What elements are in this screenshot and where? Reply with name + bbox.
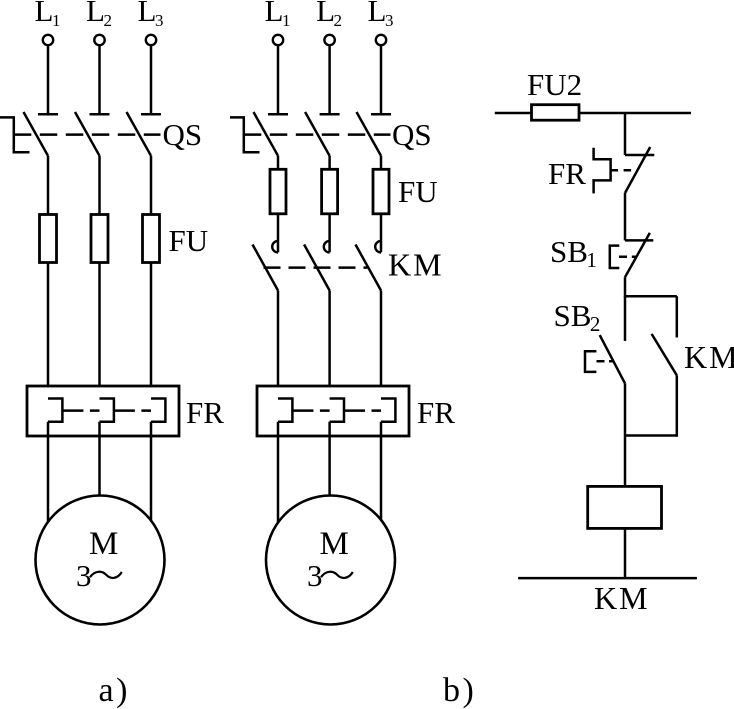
svg-text:FR: FR <box>548 156 586 191</box>
pushbutton SB1 actuator <box>610 246 620 268</box>
wire <box>624 113 627 155</box>
wire <box>380 214 383 253</box>
pushbutton SB1 link (dashed) <box>619 256 637 259</box>
wire <box>47 422 50 523</box>
switch QS pole 1 fixed contact <box>268 113 288 116</box>
svg-text:SB2: SB2 <box>554 298 601 336</box>
fuse FU element 2 <box>91 215 108 263</box>
wire <box>380 291 383 399</box>
terminal L2' <box>324 35 334 45</box>
switch QS linkage (dashed) <box>14 133 161 136</box>
thermal relay FR box <box>27 386 179 436</box>
thermal relay FR link (dashed) <box>62 409 99 412</box>
svg-text:L1: L1 <box>265 0 291 30</box>
pushbutton SB1 blade <box>625 233 650 277</box>
switch QS pole 3 fixed contact <box>371 113 391 116</box>
fuse FU' element 1 <box>270 169 286 214</box>
wire N (bottom supply) <box>518 577 697 580</box>
wire <box>150 422 153 522</box>
wire <box>380 46 383 114</box>
contactor KM main contact 3 arc <box>375 241 381 253</box>
svg-text:M: M <box>320 526 349 562</box>
label ~ (AC) <box>321 572 353 578</box>
motor M1 (3-phase) <box>36 496 165 625</box>
contact FR thermal actuator <box>594 148 611 194</box>
thermal relay FR link (dashed) <box>114 409 151 412</box>
wire <box>277 422 280 523</box>
thermal relay FR heater 1 <box>48 399 62 422</box>
wire <box>328 156 331 170</box>
switch QS pole 2 fixed contact <box>320 113 340 116</box>
svg-text:KM: KM <box>388 247 444 283</box>
contact FR link (dashed) <box>611 169 638 172</box>
wire <box>277 46 280 114</box>
thermal relay FR' box <box>257 386 409 436</box>
terminal L1 <box>43 35 53 45</box>
wire <box>380 422 383 522</box>
switch QS pole 3 blade <box>127 112 152 156</box>
switch QS pole 2 blade <box>305 112 330 156</box>
wire <box>328 291 331 399</box>
contactor KM main contact 2 blade <box>304 245 330 291</box>
wire <box>98 46 101 114</box>
switch QS handle bracket <box>0 117 30 152</box>
svg-text:SB1: SB1 <box>550 234 597 272</box>
terminal L2 <box>94 35 104 45</box>
pushbutton SB1 fixed terminal <box>625 239 653 242</box>
fuse FU' element 3 <box>373 169 389 214</box>
switch QS pole 1 blade <box>254 112 279 156</box>
contactor KM main contact 2 arc <box>324 241 330 253</box>
fuse FU' element 2 <box>322 169 338 214</box>
terminal L3' <box>376 35 386 45</box>
wire (branch junction bottom) <box>625 434 677 437</box>
label ~ (AC) <box>90 572 122 578</box>
switch QS linkage (dashed) <box>244 133 391 136</box>
terminal L1' <box>273 35 283 45</box>
wire <box>624 277 627 297</box>
svg-text:L2: L2 <box>86 0 112 30</box>
switch QS pole 1 blade <box>24 112 49 156</box>
svg-text:L1: L1 <box>35 0 61 30</box>
pushbutton SB2 actuator <box>585 351 596 372</box>
wire <box>380 156 383 170</box>
wire <box>676 296 679 337</box>
wire <box>47 263 50 399</box>
thermal relay FR' heater 2 <box>330 399 344 422</box>
coil KM <box>588 486 662 528</box>
wire <box>624 193 627 240</box>
wire <box>277 156 280 170</box>
svg-text:b): b) <box>443 672 476 709</box>
pushbutton SB2 link (dashed) <box>597 360 614 363</box>
wire <box>98 422 101 497</box>
wire <box>624 383 627 486</box>
svg-text:3: 3 <box>307 558 323 593</box>
terminal L3 <box>146 35 156 45</box>
wire L (top supply) <box>495 112 691 115</box>
contactor KM main contact 3 blade <box>356 245 382 291</box>
wire <box>328 46 331 114</box>
wire <box>277 214 280 253</box>
thermal relay FR heater 2 <box>100 399 114 422</box>
fuse FU element 3 <box>143 215 160 263</box>
thermal relay FR' link (dashed) <box>292 409 329 412</box>
switch QS pole 3 fixed contact <box>141 113 161 116</box>
contact FR fixed terminal <box>625 154 654 157</box>
wire <box>328 214 331 253</box>
wire <box>277 291 280 399</box>
svg-text:FR: FR <box>186 395 224 430</box>
svg-text:FU: FU <box>169 223 209 258</box>
thermal relay FR' link (dashed) <box>344 409 381 412</box>
contact FR blade <box>625 147 650 193</box>
svg-text:M: M <box>89 526 118 562</box>
contactor KM main contact 1 blade <box>253 245 279 291</box>
wire <box>98 263 101 399</box>
switch QS pole 2 fixed contact <box>90 113 110 116</box>
wire <box>47 156 50 215</box>
fuse FU2 <box>532 105 580 121</box>
switch QS pole 2 blade <box>75 112 100 156</box>
svg-text:KM: KM <box>594 580 650 616</box>
thermal relay FR' heater 1 <box>278 399 292 422</box>
svg-text:FR: FR <box>417 395 455 430</box>
wire <box>47 46 50 114</box>
svg-text:L2: L2 <box>316 0 342 30</box>
svg-text:L3: L3 <box>138 0 164 30</box>
contactor KM linkage (dashed) <box>264 266 368 269</box>
wire <box>328 422 331 497</box>
wire <box>150 263 153 399</box>
wire <box>150 156 153 215</box>
motor M2 (3-phase) <box>266 496 395 625</box>
svg-text:FU2: FU2 <box>527 67 582 102</box>
switch QS pole 3 blade <box>357 112 382 156</box>
svg-text:QS: QS <box>163 117 203 152</box>
contact KM aux blade <box>652 334 677 375</box>
wire <box>676 375 679 436</box>
switch QS pole 1 fixed contact <box>38 113 58 116</box>
wire (branch junction top) <box>625 295 677 298</box>
svg-text:3: 3 <box>76 558 92 593</box>
svg-text:QS: QS <box>392 117 432 152</box>
svg-text:L3: L3 <box>368 0 394 30</box>
svg-text:FU: FU <box>398 174 438 209</box>
thermal relay FR heater 3 <box>151 399 165 422</box>
thermal relay FR' heater 3 <box>381 399 395 422</box>
pushbutton SB2 blade <box>600 335 625 383</box>
contactor KM main contact 1 arc <box>272 241 278 253</box>
wire <box>624 528 627 578</box>
wire <box>624 296 627 341</box>
wire <box>98 156 101 215</box>
wire <box>150 46 153 114</box>
switch QS handle bracket <box>230 117 260 152</box>
svg-text:KM: KM <box>684 339 734 375</box>
fuse FU element 1 <box>40 215 57 263</box>
svg-text:a): a) <box>99 672 130 709</box>
